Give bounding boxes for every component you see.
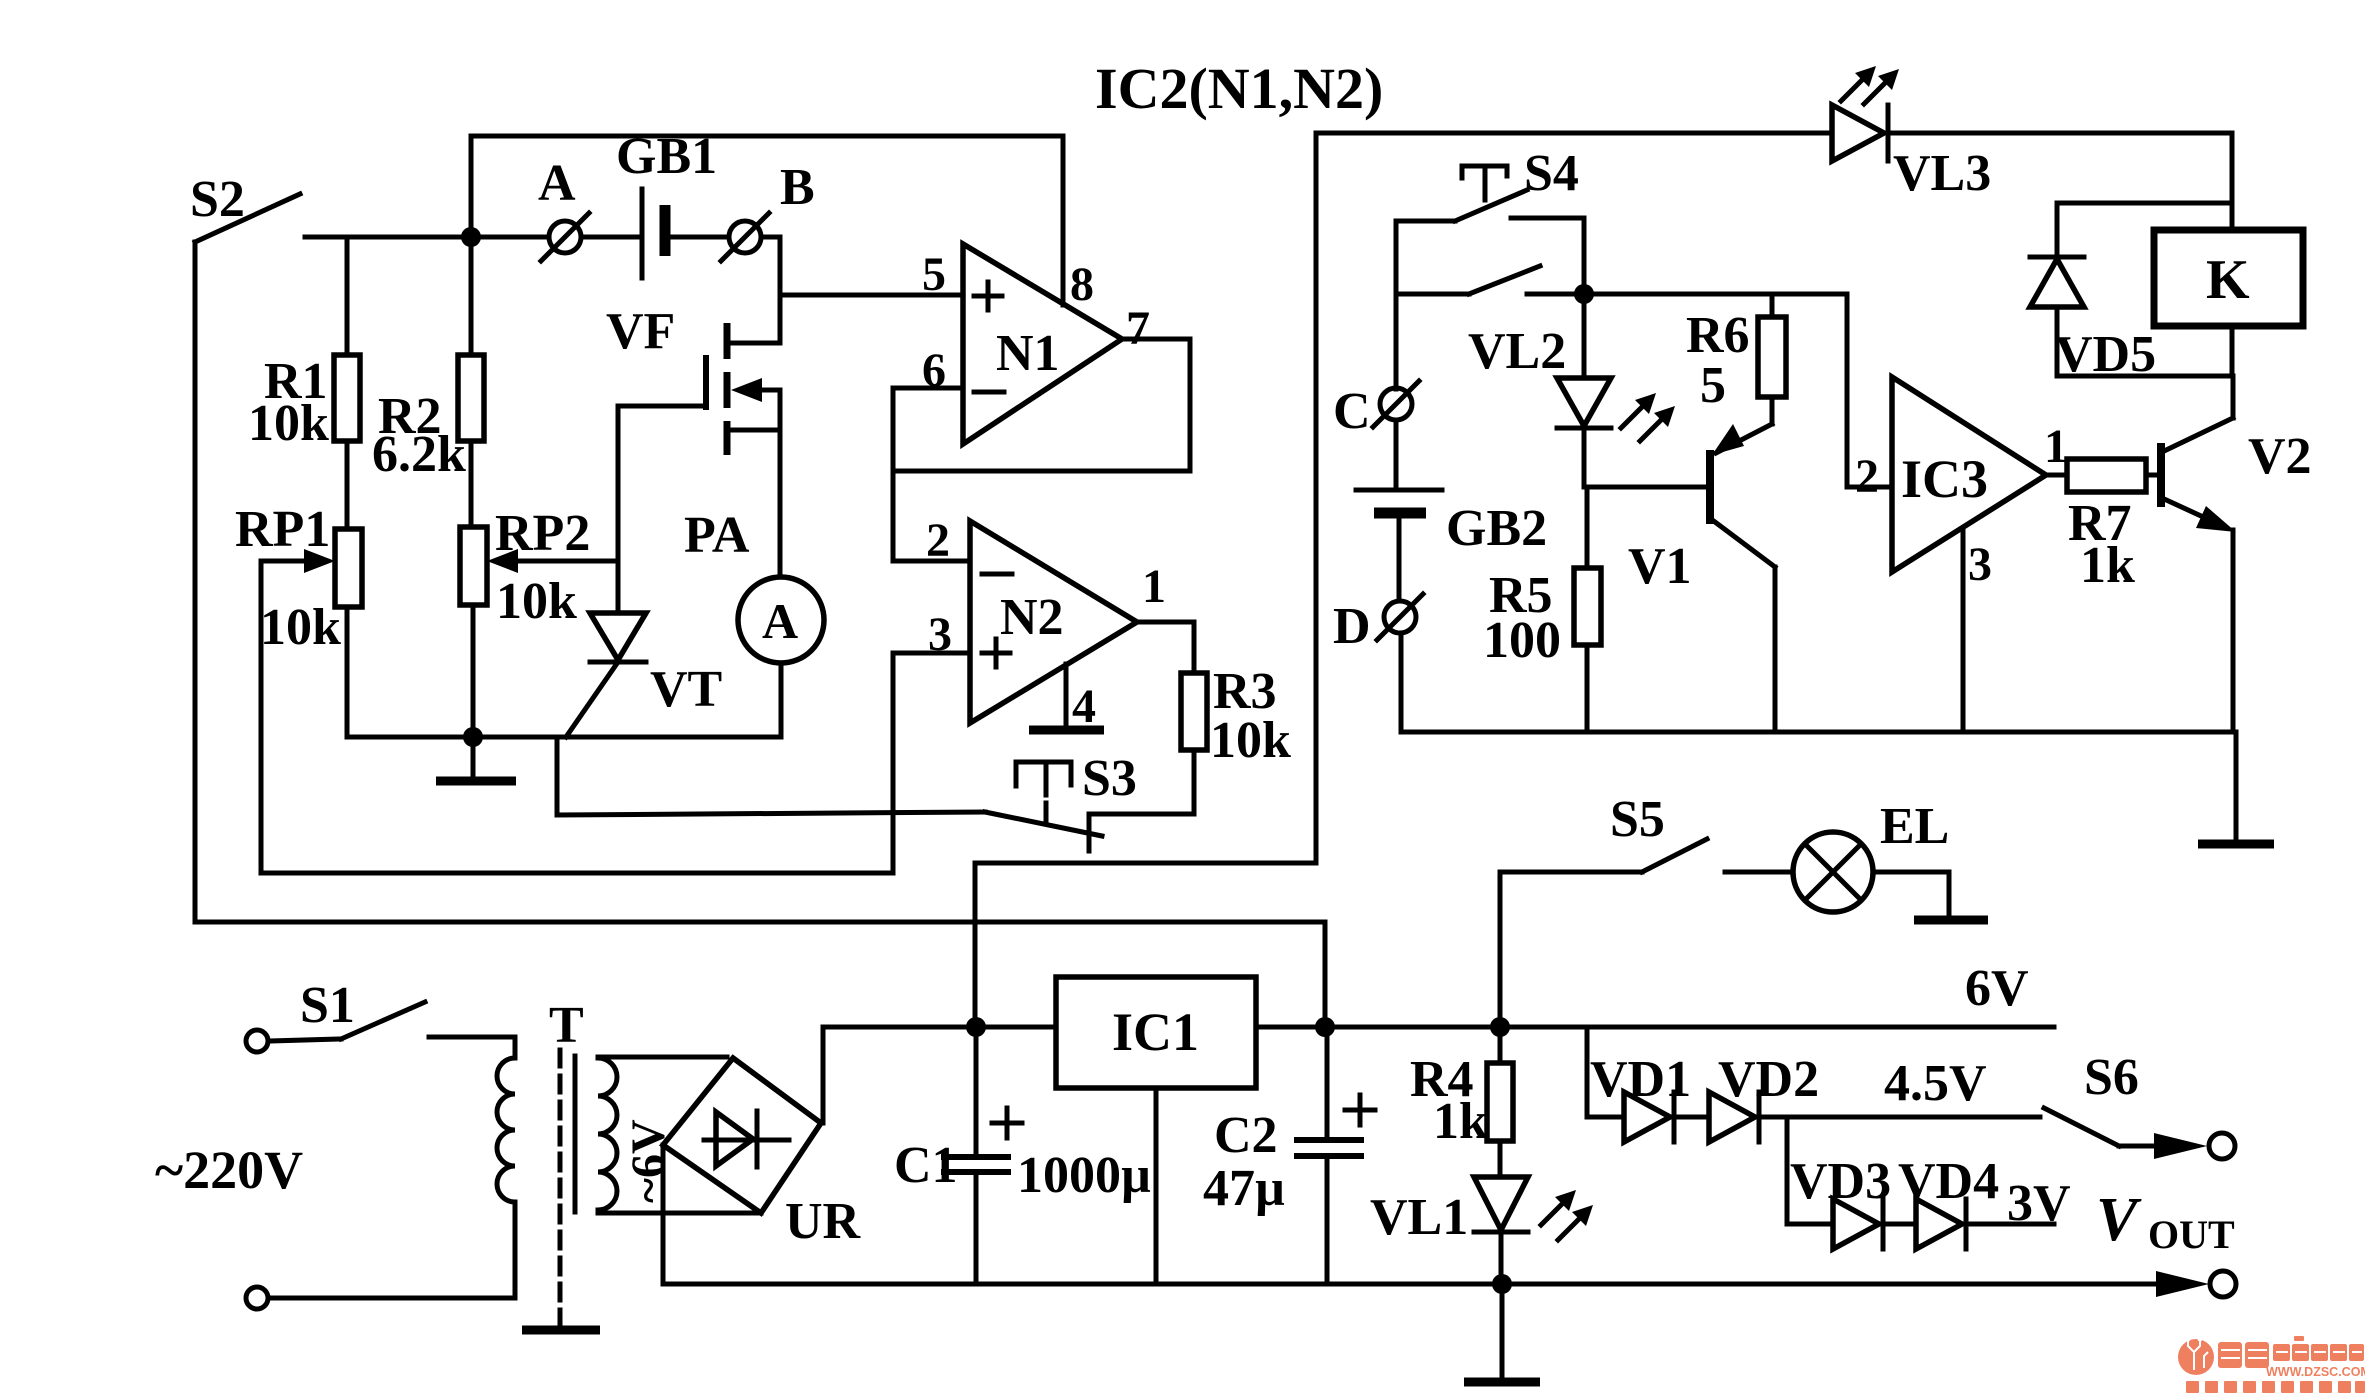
svg-text:R6: R6 xyxy=(1686,307,1750,364)
svg-text:6.2k: 6.2k xyxy=(372,426,466,483)
svg-text:2: 2 xyxy=(1855,450,1879,503)
wire UR plus to IC1 xyxy=(821,1027,1056,1123)
wire R3 bottom to S3 xyxy=(1089,750,1194,814)
switch S5 xyxy=(1610,791,1707,872)
svg-text:VD2: VD2 xyxy=(1718,1051,1819,1108)
svg-text:3: 3 xyxy=(1968,538,1992,591)
switch S2 xyxy=(190,171,300,242)
LED VL3 xyxy=(1832,105,1991,202)
svg-text:D: D xyxy=(1333,598,1371,655)
svg-text:C1: C1 xyxy=(894,1137,958,1194)
svg-text:C: C xyxy=(1333,383,1371,440)
wire VF source to PA xyxy=(778,430,783,577)
transistor V2 xyxy=(2161,418,2312,532)
wire node to A xyxy=(471,235,549,240)
wire IC3 pin2 feed xyxy=(1847,294,1892,487)
svg-text:10k: 10k xyxy=(496,573,577,630)
wire R2 top xyxy=(469,237,474,355)
battery GB2 xyxy=(1356,490,1547,557)
svg-text:8: 8 xyxy=(1070,258,1094,311)
diode VD5 xyxy=(2030,203,2232,383)
watermark logo xyxy=(2178,1336,2365,1393)
transistor V1 xyxy=(1628,397,1775,595)
wire S5 riser xyxy=(1500,872,1642,1027)
wire R1 top xyxy=(345,237,350,355)
wire bottom bus RP1 to PA xyxy=(347,735,781,740)
ammeter PA xyxy=(684,507,824,663)
svg-text:B: B xyxy=(780,159,815,216)
diode VD1 xyxy=(1590,1051,1691,1142)
svg-text:S5: S5 xyxy=(1610,791,1665,848)
svg-text:A: A xyxy=(538,155,576,212)
transformer core xyxy=(560,1050,575,1326)
node junction at R2 top xyxy=(461,227,481,247)
svg-text:VD3: VD3 xyxy=(1790,1153,1891,1210)
wire N1 pin6 input xyxy=(893,388,963,561)
resistor R3 xyxy=(1181,663,1291,769)
wire A to GB1 xyxy=(581,235,640,240)
diode VD3 xyxy=(1790,1153,1891,1249)
wire IC1 ground pin xyxy=(1154,1088,1159,1284)
svg-text:VD4: VD4 xyxy=(1898,1153,1999,1210)
svg-text:V1: V1 xyxy=(1628,538,1692,595)
transistor VF (MOSFET) xyxy=(606,295,780,455)
wire S4 junction to IC3 feed xyxy=(1527,292,1847,297)
LED VL1 xyxy=(1370,1141,1528,1284)
resistor R6 xyxy=(1686,294,1786,414)
wire VD1 branch step xyxy=(1587,1027,1624,1117)
svg-text:~220V: ~220V xyxy=(155,1140,303,1200)
switch S3 xyxy=(985,750,1137,851)
LED VL3 arrows xyxy=(1841,66,1899,104)
svg-text:A: A xyxy=(762,593,798,649)
svg-text:5: 5 xyxy=(922,248,946,301)
ground below RP junction xyxy=(436,737,516,781)
svg-text:S1: S1 xyxy=(300,977,355,1034)
svg-text:C2: C2 xyxy=(1214,1107,1278,1164)
diode VD2 xyxy=(1709,1051,1819,1142)
LED VL2 xyxy=(1468,294,1611,487)
svg-text:S6: S6 xyxy=(2084,1049,2139,1106)
wire IC1 output rail xyxy=(1256,1025,2054,1030)
wire S4 left column xyxy=(1394,221,1399,389)
op-amp IC3 xyxy=(1892,377,2046,572)
diode VD4 xyxy=(1898,1153,1999,1249)
ground transformer shield xyxy=(522,1326,600,1335)
svg-text:IC2(N1,N2): IC2(N1,N2) xyxy=(1095,56,1383,121)
wire right section top rail right xyxy=(1890,133,2232,230)
wire C to GB2 xyxy=(1394,420,1399,488)
wire RP1 wiper to N2 pin3 route xyxy=(261,561,893,873)
LED VL1 arrows xyxy=(1541,1190,1593,1240)
switch S4 xyxy=(1455,145,1579,294)
wire VL2 to V1 base xyxy=(1584,485,1708,490)
svg-text:S2: S2 xyxy=(190,171,245,228)
wire N2 pin3 input xyxy=(893,653,970,873)
svg-text:10k: 10k xyxy=(1210,712,1291,769)
wire IC3 pin3 xyxy=(1961,528,1966,732)
wire GB1 to B xyxy=(668,235,727,240)
wire N1 pin5 input xyxy=(780,293,963,298)
svg-text:10k: 10k xyxy=(248,395,329,452)
svg-text:1k: 1k xyxy=(1433,1093,1488,1150)
svg-text:UR: UR xyxy=(785,1193,862,1250)
wire RP1 bottom xyxy=(345,607,350,737)
wire N2 pin4 stub xyxy=(1064,664,1069,726)
svg-text:VL2: VL2 xyxy=(1468,323,1566,380)
svg-text:N1: N1 xyxy=(996,325,1060,382)
lamp EL xyxy=(1725,798,1949,912)
wire S2 to node xyxy=(305,235,471,240)
wire S4 upper right contact xyxy=(1511,218,1584,294)
svg-text:EL: EL xyxy=(1880,798,1949,855)
capacitor C1 xyxy=(894,1027,1151,1284)
svg-text:3V: 3V xyxy=(2007,1175,2071,1232)
ground EL xyxy=(1873,872,1988,920)
svg-text:RP1: RP1 xyxy=(235,501,330,558)
switch S1 xyxy=(246,977,425,1052)
resistor R2 xyxy=(372,355,484,483)
svg-text:K: K xyxy=(2206,249,2250,311)
svg-text:1: 1 xyxy=(1142,560,1166,613)
wire secondary bottom to bridge xyxy=(598,1210,761,1213)
svg-text:100: 100 xyxy=(1483,612,1561,669)
terminal A xyxy=(538,155,589,261)
wire RP2 bottom xyxy=(471,605,476,737)
wire R1 bottom to RP1 xyxy=(345,441,350,529)
transformer T primary xyxy=(497,997,584,1298)
svg-text:IC3: IC3 xyxy=(1901,449,1988,509)
resistor R7 xyxy=(2046,459,2158,594)
wire V2 collector up xyxy=(2231,376,2236,418)
svg-text:RP2: RP2 xyxy=(495,505,590,562)
terminal B xyxy=(721,159,815,261)
op-amp N1 xyxy=(963,244,1122,444)
ground bar pin4 xyxy=(1029,726,1104,735)
svg-text:7: 7 xyxy=(1126,302,1150,355)
node junction RP bottom xyxy=(463,727,483,747)
wire VD3-VD4 xyxy=(1883,1222,1916,1227)
potentiometer RP1 xyxy=(235,501,362,656)
wire left vertical from S2 xyxy=(193,242,198,922)
svg-text:S4: S4 xyxy=(1524,145,1579,202)
svg-text:VT: VT xyxy=(650,661,722,718)
resistor R4 xyxy=(1410,1027,1513,1150)
node junction rail S2-feed xyxy=(1315,1017,1335,1037)
terminal C xyxy=(1333,381,1419,440)
svg-text:T: T xyxy=(549,997,584,1054)
wire right section top rail left xyxy=(1316,131,1832,136)
switch S6 xyxy=(2044,1049,2235,1159)
node junction C1 xyxy=(966,1017,986,1037)
wire PA bottom xyxy=(779,663,784,737)
svg-text:5: 5 xyxy=(1700,357,1726,414)
wire K bottom to collector xyxy=(2230,326,2235,376)
wire R2 bottom to RP2 xyxy=(469,441,474,527)
wire VD1-VD2 xyxy=(1674,1115,1709,1120)
wire V2 emitter down xyxy=(2231,530,2236,732)
svg-text:OUT: OUT xyxy=(2148,1212,2235,1257)
wire V1 collector down xyxy=(1773,567,1778,732)
svg-text:47µ: 47µ xyxy=(1203,1160,1285,1217)
svg-text:V: V xyxy=(2096,1186,2142,1254)
svg-text:WWW.DZSC.COM: WWW.DZSC.COM xyxy=(2266,1365,2365,1379)
svg-text:GB2: GB2 xyxy=(1446,500,1547,557)
terminal S1 lower xyxy=(246,1287,268,1309)
svg-text:VF: VF xyxy=(606,303,675,360)
wire N2 pin2 input xyxy=(893,559,970,564)
wire UR minus down xyxy=(661,1145,666,1284)
svg-text:4: 4 xyxy=(1072,680,1096,733)
potentiometer RP2 xyxy=(460,505,618,630)
battery GB1 xyxy=(616,128,717,278)
node junction VL2 top xyxy=(1574,284,1594,304)
svg-text:PA: PA xyxy=(684,507,750,564)
svg-text:V2: V2 xyxy=(2248,428,2312,485)
output terminal lower xyxy=(2156,1271,2236,1297)
wire S1 to transformer xyxy=(429,1035,515,1040)
LED VL2 arrows xyxy=(1621,393,1675,441)
wire S4 lower left contact xyxy=(1396,292,1469,297)
terminal D xyxy=(1333,594,1423,655)
thyristor VT xyxy=(566,613,722,737)
wire VF gate xyxy=(618,406,706,613)
ground rail bottom xyxy=(663,1282,2186,1287)
capacitor C2 xyxy=(1203,1027,1375,1284)
wire N1 output feedback xyxy=(893,339,1190,471)
svg-text:1000µ: 1000µ xyxy=(1017,1147,1151,1204)
wire secondary top to bridge xyxy=(598,1057,727,1058)
regulator IC1 xyxy=(1056,977,1256,1088)
node junction VL1 bottom xyxy=(1492,1274,1512,1294)
svg-text:6V: 6V xyxy=(1965,960,2029,1017)
wire long bottom feed to power rail xyxy=(195,922,1325,1027)
svg-text:VD1: VD1 xyxy=(1590,1051,1691,1108)
ground VL1 xyxy=(1464,1284,1540,1382)
resistor R1 xyxy=(248,353,360,452)
svg-text:VL1: VL1 xyxy=(1370,1189,1468,1246)
wire VD2 to S6 xyxy=(1759,1115,2040,1120)
svg-text:N2: N2 xyxy=(1000,589,1064,646)
wire node up to top rail xyxy=(469,136,474,237)
bridge rectifier UR xyxy=(663,1058,862,1250)
wire right section left feed xyxy=(975,133,1316,1027)
wire top rail to N1 pin8 xyxy=(471,136,1063,305)
svg-text:~6V: ~6V xyxy=(622,1119,675,1203)
label VOUT xyxy=(2096,1186,2235,1257)
svg-text:VD5: VD5 xyxy=(2055,326,2156,383)
wire VD3 branch xyxy=(1787,1117,1833,1224)
wire N2 output xyxy=(1137,622,1194,673)
svg-text:4.5V: 4.5V xyxy=(1884,1055,1987,1112)
op-amp N2 xyxy=(970,521,1137,723)
wire mains lower xyxy=(269,1296,515,1301)
wire B down to pin5 line xyxy=(761,237,780,295)
node junction R4 top xyxy=(1490,1017,1510,1037)
wire right section bottom rail xyxy=(1401,730,2236,735)
wire VT cathode to S3 xyxy=(557,737,985,815)
wire D to rail xyxy=(1399,633,1404,732)
svg-text:10k: 10k xyxy=(260,599,341,656)
svg-text:1k: 1k xyxy=(2080,537,2135,594)
relay K xyxy=(2154,230,2303,326)
resistor R5 xyxy=(1483,487,1601,732)
svg-text:VL3: VL3 xyxy=(1893,145,1991,202)
svg-text:GB1: GB1 xyxy=(616,128,717,185)
wire GB2 to D xyxy=(1397,515,1402,600)
wire S4 upper left contact xyxy=(1396,219,1455,224)
transformer T secondary xyxy=(598,1058,675,1210)
svg-text:S3: S3 xyxy=(1082,750,1137,807)
wire VD4 end xyxy=(1966,1222,2054,1227)
ground right section xyxy=(2198,732,2274,844)
svg-text:IC1: IC1 xyxy=(1112,1002,1199,1062)
